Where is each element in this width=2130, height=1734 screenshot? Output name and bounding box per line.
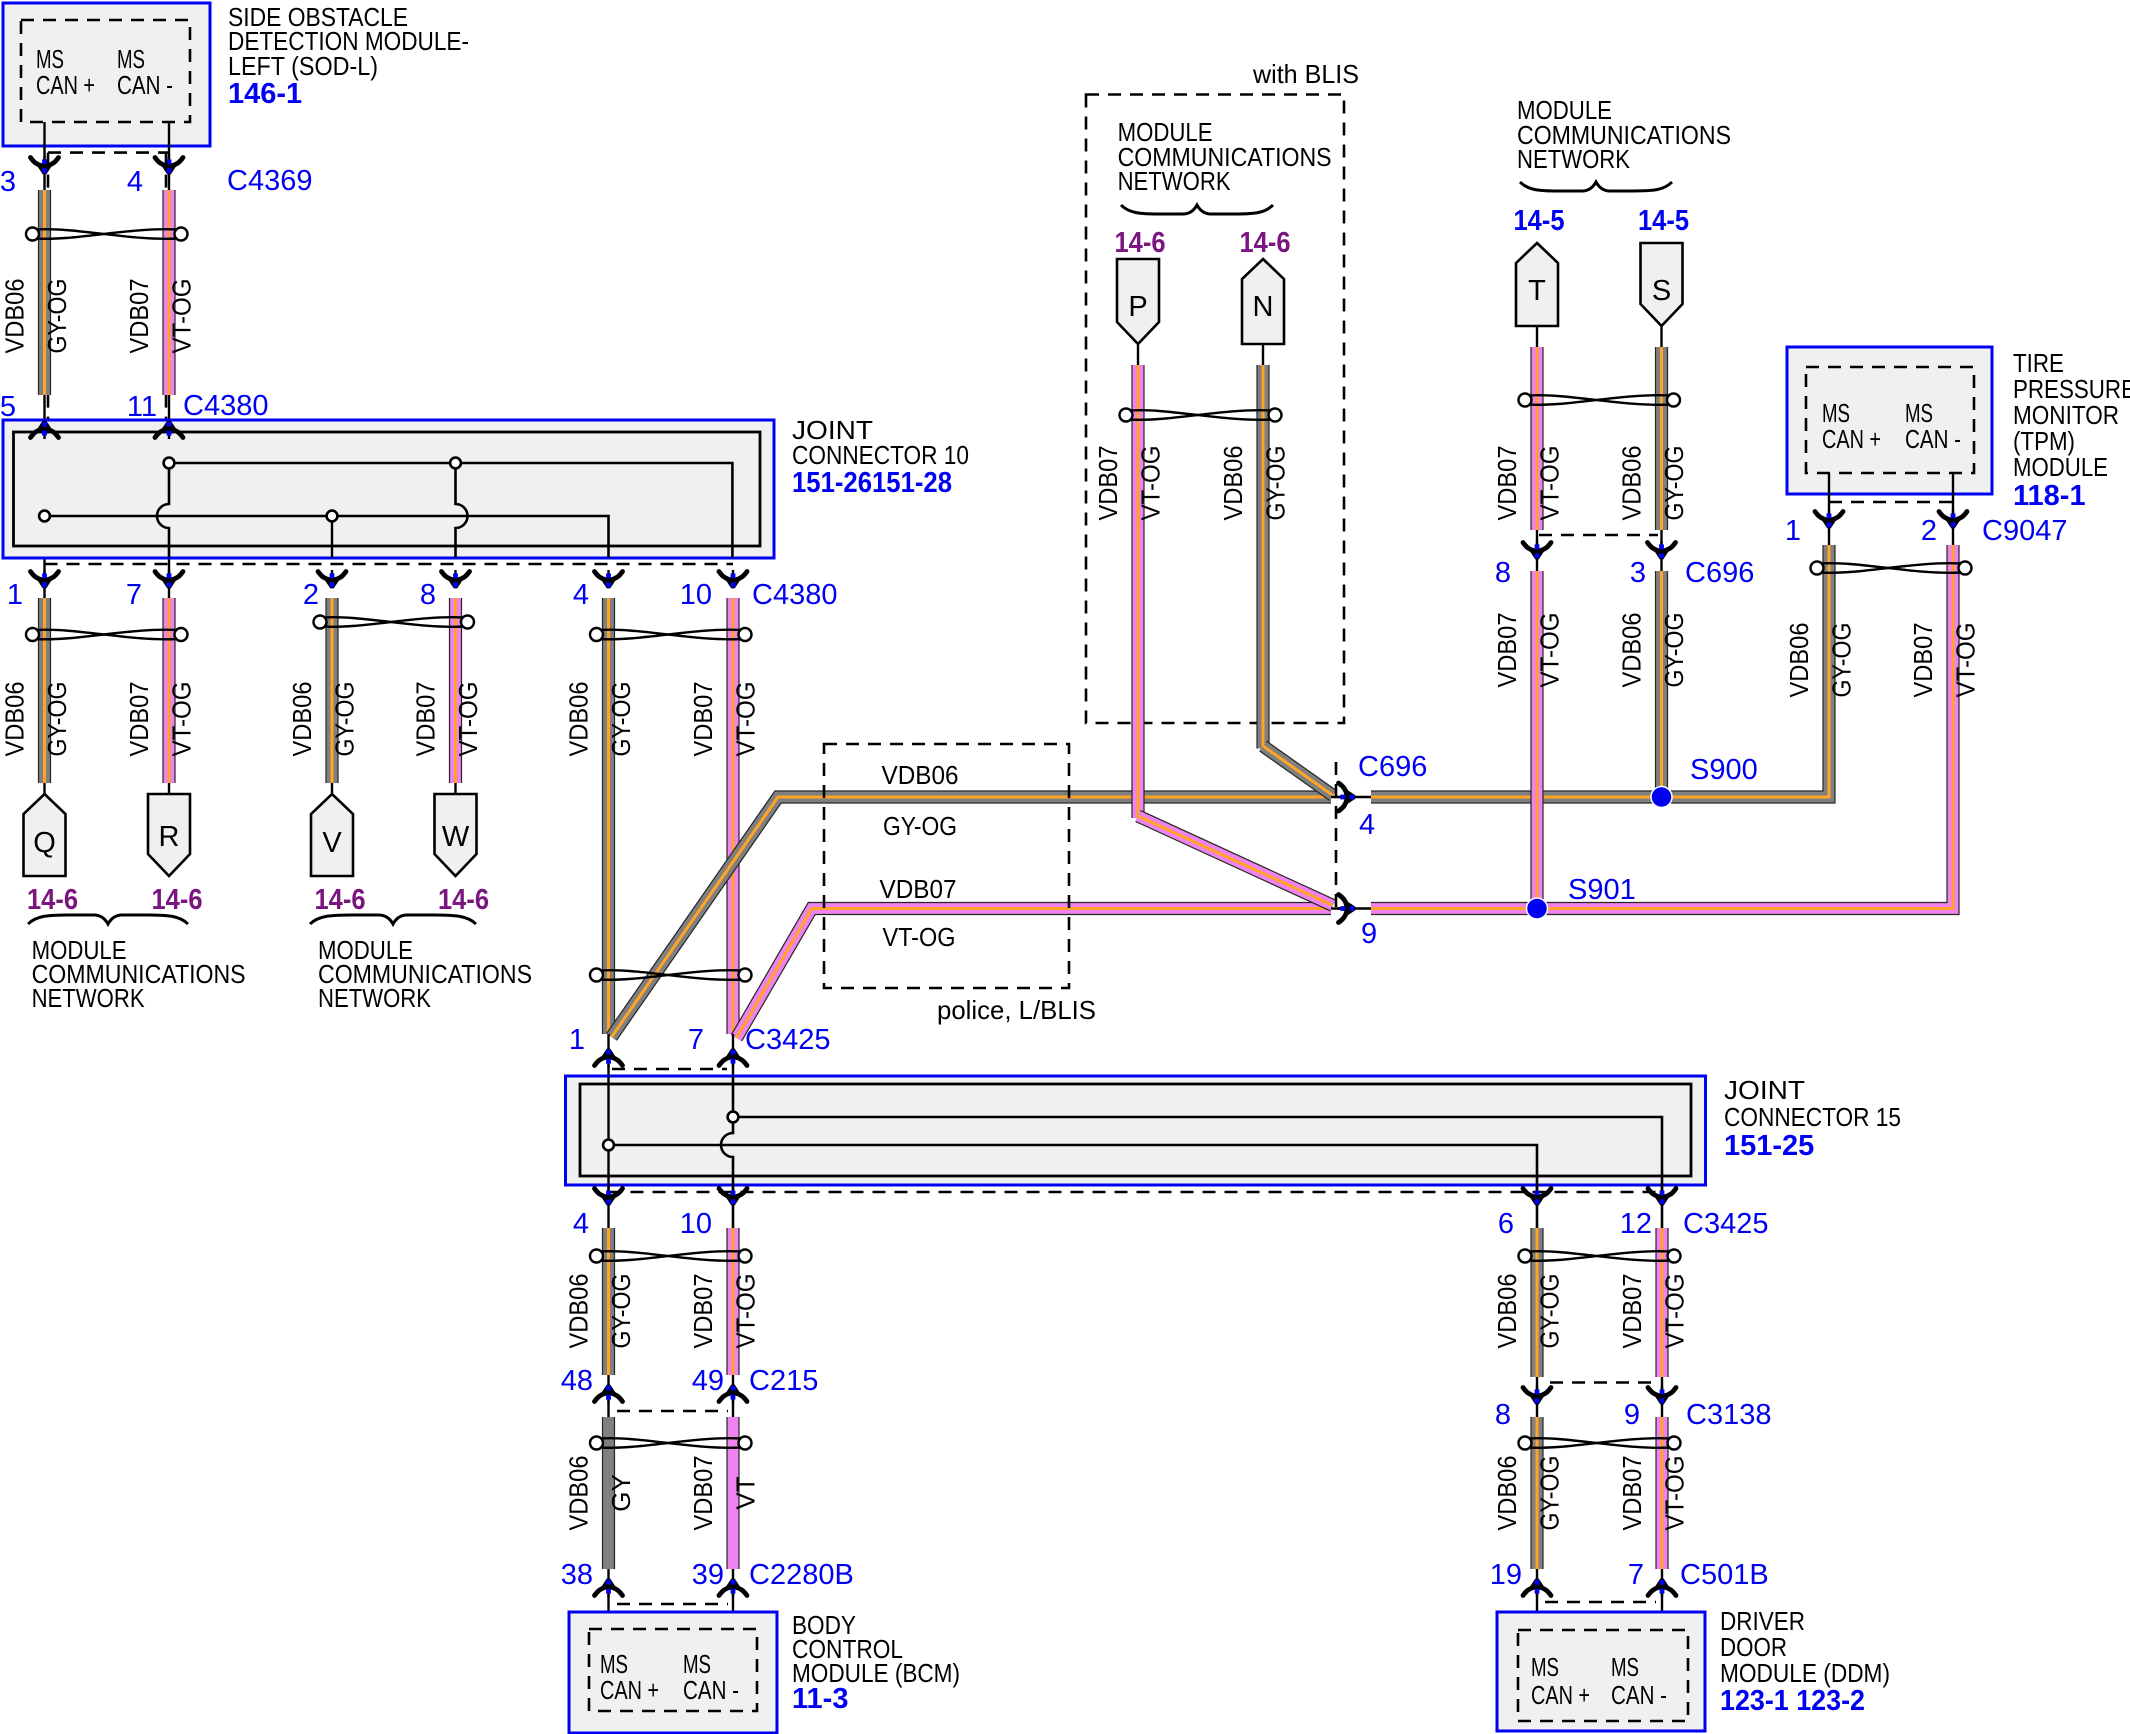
wire VDB06 GY-OG branch to C696 pin 4 [612, 797, 1332, 1037]
connector C3138 pin 8 arrow [1523, 1386, 1551, 1404]
JC10 vertical pin 7 with hop [157, 463, 169, 558]
wire VDB07 VT (C215-49 to C2280B-39) [726, 1417, 739, 1569]
connector C696 pin 4 arrow [1337, 783, 1355, 811]
svg-text:LEFT (SOD-L): LEFT (SOD-L) [228, 51, 378, 81]
svg-text:12: 12 [1620, 1208, 1652, 1240]
svg-text:C9047: C9047 [1982, 515, 2067, 547]
svg-text:VT-OG: VT-OG [731, 682, 761, 757]
svg-text:VDB07: VDB07 [1093, 446, 1123, 521]
wire VDB07 VT-OG to terminal R [162, 598, 175, 783]
svg-text:3: 3 [1630, 557, 1646, 589]
connector C9047 pin 2 arrow [1939, 510, 1967, 528]
svg-text:9: 9 [1361, 918, 1377, 950]
svg-text:CAN -: CAN - [1611, 1680, 1667, 1710]
svg-text:C3138: C3138 [1686, 1399, 1771, 1431]
svg-text:19: 19 [1490, 1559, 1522, 1591]
lead from N [1262, 344, 1264, 367]
twisted pair symbol [1519, 1250, 1681, 1263]
svg-text:T: T [1528, 275, 1546, 307]
wire VDB06 GY-OG C696 pin4 to TPM pin1 via S900 [1371, 545, 1829, 797]
svg-text:7: 7 [126, 579, 142, 611]
JC10 junction circle top bus at pin 11 feed [164, 458, 175, 469]
svg-text:9: 9 [1624, 1399, 1640, 1431]
svg-text:MS: MS [1611, 1652, 1639, 1682]
twisted pair symbol [1519, 394, 1681, 407]
lead from T [1536, 326, 1538, 349]
brace over T/S group [1520, 182, 1672, 191]
svg-text:VDB07: VDB07 [1492, 613, 1522, 688]
svg-text:14-6: 14-6 [152, 884, 203, 916]
svg-text:1: 1 [569, 1024, 585, 1056]
twisted pair symbol [26, 228, 188, 241]
JC15 junction circle top bus [728, 1112, 739, 1123]
connector C4380 dashed line below JC10 [45, 563, 734, 566]
lead to terminal W [454, 783, 456, 796]
svg-text:VT-OG: VT-OG [883, 922, 956, 952]
svg-text:VDB06: VDB06 [1218, 446, 1248, 521]
dashed line C215 [617, 1410, 728, 1413]
lead C2280B pin 38 into BCM [607, 1569, 609, 1631]
wire VDB07 VT-OG diagonal P to C696 pin 9 [1138, 816, 1333, 906]
svg-text:VDB07: VDB07 [1617, 1274, 1647, 1349]
wire VDB07 VT-OG C696 pin9 to TPM pin2 via S901 [1371, 545, 1953, 909]
svg-text:S901: S901 [1568, 874, 1636, 906]
offpage terminal N [1242, 259, 1284, 344]
JC15 internal bus VT net (top) [733, 1117, 1662, 1228]
svg-text:VT-OG: VT-OG [167, 279, 197, 354]
svg-text:C215: C215 [749, 1365, 818, 1397]
svg-text:39: 39 [692, 1559, 724, 1591]
svg-text:GY-OG: GY-OG [1261, 446, 1291, 521]
connector C2280B pin 38 arrow [595, 1579, 623, 1597]
connector C4380 pin 5 arrow [31, 421, 59, 439]
svg-text:VT-OG: VT-OG [1136, 446, 1166, 521]
svg-text:VDB07: VDB07 [688, 1274, 718, 1349]
svg-text:S900: S900 [1690, 754, 1758, 786]
svg-text:VT-OG: VT-OG [1660, 1456, 1690, 1531]
lead through C696 pin 9 [1331, 907, 1371, 909]
wire VDB06 GY-OG from C696 pin 3 to S900 [1655, 571, 1668, 797]
connector C4369 dashed line [48, 151, 169, 154]
module BCM box [569, 1612, 777, 1733]
svg-text:VDB06: VDB06 [0, 279, 30, 354]
svg-text:GY-OG: GY-OG [1535, 1274, 1565, 1349]
splice S900 [1651, 787, 1672, 808]
svg-text:7: 7 [1628, 1559, 1644, 1591]
wire VDB07 VT-OG (C3425-10 to C215-49) [726, 1228, 739, 1375]
svg-text:VT-OG: VT-OG [167, 682, 197, 757]
svg-text:GY-OG: GY-OG [42, 682, 72, 757]
JC15 vertical pin7-pin10 with hop [721, 1076, 733, 1228]
svg-text:14-6: 14-6 [1240, 227, 1291, 259]
wire VDB06 GY (C215-48 to C2280B-38) [602, 1417, 615, 1569]
connector C3425 pin 1 arrow [595, 1049, 623, 1067]
svg-text:48: 48 [561, 1365, 593, 1397]
wire VDB06 GY-OG (C3425-4 to C215-48) [602, 1228, 615, 1375]
connector C4380 pin 7 arrow [155, 570, 183, 588]
svg-text:with BLIS: with BLIS [1252, 59, 1359, 89]
connector C4380 pin 2 arrow [318, 570, 346, 588]
module SOD-L box [3, 3, 210, 146]
wire VDB07 VT-OG branch to C696 pin 9 [737, 909, 1332, 1039]
svg-text:4: 4 [1359, 809, 1375, 841]
svg-text:VDB07: VDB07 [1908, 623, 1938, 698]
svg-text:N: N [1253, 291, 1274, 323]
offpage terminal T [1516, 243, 1558, 326]
svg-text:8: 8 [1495, 557, 1511, 589]
connector C3425 pin 10 arrow [719, 1187, 747, 1205]
JC10 vertical pin 2 [331, 516, 333, 558]
connector C696 pin 9 arrow [1337, 895, 1355, 923]
brace under V/W group [310, 915, 476, 924]
connector C4380 pin 11 arrow [155, 421, 183, 439]
svg-text:VDB07: VDB07 [124, 279, 154, 354]
svg-text:10: 10 [680, 579, 712, 611]
wire VDB06 GY-OG (C3138-8 to C501B-19) [1530, 1417, 1543, 1569]
connector C4369 pin 4 arrow [155, 156, 183, 174]
svg-text:CAN +: CAN + [600, 1675, 659, 1705]
svg-text:NETWORK: NETWORK [318, 983, 432, 1013]
svg-text:VT-OG: VT-OG [731, 1274, 761, 1349]
connector C4380 pin 1 arrow [31, 570, 59, 588]
connector C501B pin 19 arrow [1523, 1579, 1551, 1597]
wire VDB07 VT-OG (SOD-L to C4380) [162, 190, 175, 395]
wire lead C4380 pin 5 into joint connector 10 [43, 395, 45, 598]
svg-text:VDB06: VDB06 [564, 682, 594, 757]
wire VDB06 GY-OG (C3425-6 to C3138-8) [1530, 1228, 1543, 1377]
dashed line C3425 upper [612, 1068, 727, 1071]
svg-text:C3425: C3425 [745, 1024, 830, 1056]
connector C696 pin 3 arrow [1648, 541, 1676, 559]
svg-text:VDB06: VDB06 [882, 760, 959, 790]
svg-text:CAN +: CAN + [1822, 424, 1881, 454]
wire VDB06 GY-OG (C4380-4 to C3425-1) [602, 598, 615, 1034]
connector C215 pin 48 arrow [595, 1385, 623, 1403]
twisted pair symbol [590, 628, 752, 641]
connector C215 pin 49 arrow [719, 1385, 747, 1403]
lead TPM MS CAN- to C9047 pin 2 [1952, 473, 1954, 545]
svg-text:14-6: 14-6 [27, 884, 78, 916]
svg-text:VDB06: VDB06 [1617, 446, 1647, 521]
svg-text:VDB07: VDB07 [688, 682, 718, 757]
lead C3425 pin 7 into JC15 [732, 1034, 734, 1076]
wire VDB07 VT-OG from T to C696 pin 8 [1530, 347, 1543, 530]
svg-text:VDB07: VDB07 [688, 1456, 718, 1531]
svg-text:CAN +: CAN + [36, 70, 95, 100]
svg-text:VDB06: VDB06 [1492, 1456, 1522, 1531]
lead to terminal V [331, 783, 333, 796]
svg-text:P: P [1128, 291, 1147, 323]
wire VDB07 VT-OG from P [1131, 365, 1144, 818]
lead C3425 pin 1 into JC15 [607, 1034, 609, 1076]
svg-text:11: 11 [127, 391, 157, 423]
svg-text:151-26151-28: 151-26151-28 [792, 467, 952, 499]
joint connector 15 box [566, 1076, 1706, 1185]
lead C215 pin 49 [732, 1375, 734, 1417]
svg-text:C696: C696 [1358, 751, 1427, 783]
offpage terminal S [1641, 243, 1683, 326]
connector C9047 dashed line [1829, 501, 1953, 504]
wire VDB06 GY-OG to terminal Q [38, 598, 51, 783]
connector C2280B pin 39 arrow [719, 1579, 747, 1597]
JC10 internal bus VT net (top) [169, 463, 732, 558]
svg-text:14-6: 14-6 [1115, 227, 1166, 259]
twisted pair symbol [1811, 562, 1972, 575]
joint connector 10 box [3, 420, 774, 558]
svg-text:VDB07: VDB07 [1617, 1456, 1647, 1531]
svg-text:7: 7 [688, 1024, 704, 1056]
svg-text:1: 1 [1785, 515, 1801, 547]
svg-text:MODULE (DDM): MODULE (DDM) [1720, 1658, 1890, 1688]
wire VDB07 VT-OG (C4380-10 to C3425-7) [726, 598, 739, 1034]
svg-text:VDB06: VDB06 [564, 1274, 594, 1349]
brace under Q/R group [28, 915, 188, 924]
JC10 junction circle top bus at pin 8 [450, 458, 461, 469]
svg-text:8: 8 [1495, 1399, 1511, 1431]
svg-text:4: 4 [573, 1208, 589, 1240]
connector C4380 pin 4 arrow [595, 570, 623, 588]
module DDM box [1497, 1612, 1705, 1731]
svg-text:S: S [1652, 275, 1671, 307]
svg-text:VT-OG: VT-OG [453, 682, 483, 757]
twisted pair symbol [1120, 409, 1282, 422]
svg-text:VDB06: VDB06 [1784, 623, 1814, 698]
svg-text:GY-OG: GY-OG [606, 1274, 636, 1349]
svg-text:VDB07: VDB07 [124, 682, 154, 757]
svg-text:151-25: 151-25 [1724, 1130, 1814, 1162]
lead C3138 pin 8 [1536, 1377, 1538, 1417]
svg-text:MS: MS [1531, 1652, 1559, 1682]
dashed option box with BLIS [1086, 95, 1344, 724]
svg-text:1: 1 [7, 579, 23, 611]
svg-text:11-3: 11-3 [792, 1683, 848, 1715]
connector C3425 pin 6 arrow [1523, 1187, 1551, 1205]
wire VDB06 GY-OG from S to C696 pin 3 [1655, 347, 1668, 530]
wire VDB06 GY-OG (SOD-L to C4380) [38, 190, 51, 395]
offpage terminal R [148, 794, 190, 876]
svg-text:VT-OG: VT-OG [1535, 613, 1565, 688]
wire VDB07 VT-OG to terminal W [449, 598, 462, 783]
twisted pair symbol [590, 1250, 752, 1263]
offpage terminal Q [24, 794, 66, 876]
svg-text:C4380: C4380 [752, 579, 837, 611]
svg-text:VDB06: VDB06 [287, 682, 317, 757]
JC15 junction circle bottom bus [603, 1140, 614, 1151]
svg-text:VDB06: VDB06 [564, 1456, 594, 1531]
svg-text:VDB06: VDB06 [1492, 1274, 1522, 1349]
svg-text:123-1 123-2: 123-1 123-2 [1720, 1685, 1865, 1717]
wire lead SOD-L MS CAN+ to C4369 pin 3 [43, 122, 45, 192]
lead C2280B pin 39 into BCM [732, 1569, 734, 1631]
svg-text:VDB07: VDB07 [880, 874, 957, 904]
connector C3425 dashed line below JC15 [609, 1191, 1663, 1194]
splice S901 [1527, 898, 1548, 919]
svg-text:118-1: 118-1 [2013, 480, 2086, 512]
svg-text:C3425: C3425 [1683, 1208, 1768, 1240]
svg-text:NETWORK: NETWORK [32, 983, 146, 1013]
JC15 vertical pin1-pin4 [607, 1076, 609, 1228]
svg-text:GY-OG: GY-OG [1827, 623, 1857, 698]
svg-text:Q: Q [33, 827, 56, 859]
svg-text:MODULE: MODULE [2013, 452, 2108, 482]
JC10 junction circle bottom bus at pin 2 [327, 511, 338, 522]
wire lead C4380 pin 11 into joint connector 10 [168, 395, 170, 598]
svg-text:NETWORK: NETWORK [1118, 166, 1232, 196]
svg-text:146-1: 146-1 [228, 78, 302, 110]
svg-text:CONNECTOR 15: CONNECTOR 15 [1724, 1102, 1901, 1132]
twisted pair symbol [314, 616, 475, 629]
TPM internal dashed connector outline [1806, 367, 1974, 473]
svg-text:10: 10 [680, 1208, 712, 1240]
svg-text:VDB07: VDB07 [1492, 446, 1522, 521]
dashed line C3138 [1550, 1381, 1656, 1384]
offpage terminal W [435, 794, 477, 876]
twisted pair symbol [1519, 1437, 1681, 1450]
svg-text:8: 8 [420, 579, 436, 611]
svg-text:C2280B: C2280B [749, 1559, 854, 1591]
dashed line C501B [1545, 1601, 1656, 1604]
svg-text:14-5: 14-5 [1514, 205, 1565, 237]
svg-text:4: 4 [127, 166, 143, 198]
connector C3425 pin 12 arrow [1648, 1187, 1676, 1205]
lead C501B pin 7 into DDM [1661, 1569, 1663, 1630]
JC10 junction circle bottom bus at pin 5 feed [39, 511, 50, 522]
brace over P/N group [1121, 205, 1273, 214]
svg-text:C501B: C501B [1680, 1559, 1769, 1591]
connector C3138 pin 9 arrow [1648, 1386, 1676, 1404]
svg-text:GY-OG: GY-OG [606, 682, 636, 757]
lead TPM MS CAN+ to C9047 pin 1 [1828, 473, 1830, 545]
svg-text:3: 3 [0, 166, 16, 198]
wire VDB07 VT-OG from C696 pin 8 to S901 [1530, 571, 1543, 909]
wire VDB06 GY-OG to terminal V [325, 598, 338, 783]
svg-text:W: W [442, 821, 470, 853]
svg-text:V: V [322, 827, 342, 859]
svg-text:14-5: 14-5 [1638, 205, 1689, 237]
connector C4380 pin 8 arrow [442, 570, 470, 588]
svg-text:CAN -: CAN - [683, 1675, 739, 1705]
connector C4380 pin 10 arrow [719, 570, 747, 588]
wire VDB06 GY-OG diagonal N to C696 pin 4 [1263, 746, 1333, 796]
twisted pair symbol (lower) [590, 969, 752, 982]
svg-text:14-6: 14-6 [315, 884, 366, 916]
connector C9047 pin 1 arrow [1815, 510, 1843, 528]
module TPM box [1787, 347, 1992, 494]
lead from P [1137, 344, 1139, 367]
lead C501B pin 19 into DDM [1536, 1569, 1538, 1630]
svg-text:GY-OG: GY-OG [330, 682, 360, 757]
wire VDB07 VT-OG (C3138-9 to C501B-7) [1655, 1417, 1668, 1569]
wire VDB06 GY-OG from N [1256, 365, 1269, 749]
svg-text:VT: VT [731, 1476, 761, 1509]
svg-text:NETWORK: NETWORK [1517, 144, 1631, 174]
twisted pair symbol [26, 628, 188, 641]
svg-text:VDB07: VDB07 [411, 682, 441, 757]
lead through C696 pin 4 [1331, 796, 1371, 798]
lead C215 pin 48 [607, 1375, 609, 1417]
svg-text:CAN +: CAN + [1531, 1680, 1590, 1710]
svg-text:C696: C696 [1685, 557, 1754, 589]
connector C4369 pin 3 arrow [31, 156, 59, 174]
connector C3425 pin 7 arrow [719, 1049, 747, 1067]
svg-text:VT-OG: VT-OG [1535, 446, 1565, 521]
svg-text:GY-OG: GY-OG [1535, 1456, 1565, 1531]
svg-text:CONNECTOR 10: CONNECTOR 10 [792, 440, 969, 470]
svg-text:police, L/BLIS: police, L/BLIS [937, 995, 1096, 1025]
connector C3425 pin 4 arrow [595, 1187, 623, 1205]
lead to terminal R [168, 783, 170, 796]
dashed option box police L/BLIS [824, 744, 1069, 988]
svg-text:4: 4 [573, 579, 589, 611]
SOD-L internal dashed connector outline [21, 20, 190, 122]
twisted pair symbol [590, 1437, 752, 1450]
lead C696 pin 8 [1536, 530, 1538, 571]
JC15 internal bus GY net (bottom) [609, 1145, 1538, 1228]
connector C696 dashed line (pins 8/3) [1539, 534, 1658, 537]
svg-text:GY-OG: GY-OG [42, 279, 72, 354]
svg-text:VDB06: VDB06 [0, 682, 30, 757]
lead to terminal Q [43, 783, 45, 796]
svg-text:CAN -: CAN - [1905, 424, 1961, 454]
svg-text:5: 5 [0, 391, 16, 423]
svg-text:14-6: 14-6 [438, 884, 489, 916]
wire VDB07 VT-OG (C3425-12 to C3138-9) [1655, 1228, 1668, 1377]
svg-text:2: 2 [1921, 515, 1937, 547]
offpage terminal P [1117, 259, 1159, 344]
lead C696 pin 3 [1660, 530, 1662, 571]
svg-text:VDB06: VDB06 [1617, 613, 1647, 688]
dashed inline connector bracket C4369-C4380 [47, 153, 50, 426]
JC10 vertical pin 8 with hop [456, 463, 468, 558]
svg-text:CAN -: CAN - [117, 70, 173, 100]
svg-text:R: R [159, 821, 180, 853]
svg-text:2: 2 [303, 579, 319, 611]
svg-text:GY-OG: GY-OG [1659, 613, 1689, 688]
svg-text:C4369: C4369 [227, 165, 312, 197]
svg-text:GY-OG: GY-OG [1659, 446, 1689, 521]
svg-text:VT-OG: VT-OG [1951, 623, 1981, 698]
lead C3138 pin 9 [1661, 1377, 1663, 1417]
svg-text:JOINT: JOINT [1724, 1075, 1805, 1105]
dashed line C2280B [617, 1603, 728, 1606]
svg-text:VT-OG: VT-OG [1660, 1274, 1690, 1349]
svg-text:GY: GY [606, 1474, 636, 1512]
lead from S [1660, 326, 1662, 349]
svg-text:GY-OG: GY-OG [883, 811, 957, 841]
svg-text:6: 6 [1498, 1208, 1514, 1240]
svg-text:C4380: C4380 [183, 390, 268, 422]
wire lead SOD-L MS CAN- to C4369 pin 4 [168, 122, 170, 192]
connector C696 pin 8 arrow [1523, 541, 1551, 559]
BCM internal dashed connector outline [589, 1629, 757, 1711]
connector C501B pin 7 arrow [1648, 1579, 1676, 1597]
svg-text:38: 38 [561, 1559, 593, 1591]
connector C696 dashed line [1335, 762, 1338, 908]
DDM internal dashed connector outline [1518, 1630, 1688, 1721]
svg-text:49: 49 [692, 1365, 724, 1397]
offpage terminal V [311, 794, 353, 876]
JC10 internal bus GY net (bottom) [45, 516, 609, 558]
